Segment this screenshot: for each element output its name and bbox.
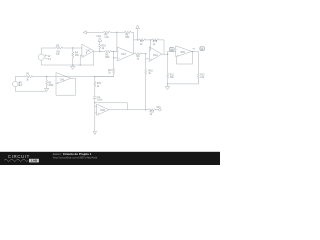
resistor chain down from j9 <box>145 54 149 110</box>
svg-text:http://circuitlab.com/c687y4af: http://circuitlab.com/c687y4afy4afa <box>53 156 98 160</box>
svg-text:LAB: LAB <box>31 159 38 163</box>
wire top chain corner <box>131 32 133 54</box>
resistor R7 <box>139 39 146 42</box>
label opamp C <box>150 50 158 61</box>
label R9 <box>137 56 141 61</box>
label R10 <box>150 107 162 116</box>
label R6 <box>104 35 109 40</box>
svg-text:100n: 100n <box>97 100 103 102</box>
svg-text:-: - <box>150 50 151 53</box>
resistor R3 <box>56 47 63 50</box>
label opamp F <box>98 106 106 115</box>
resistor R2 chain <box>46 77 48 89</box>
wire F down <box>94 103 96 131</box>
wire V2 bottom <box>41 60 93 65</box>
label R11 <box>170 74 175 79</box>
svg-text:CIRCUIT: CIRCUIT <box>8 154 30 159</box>
op-amp OA2 <box>82 45 94 58</box>
wire vo down <box>197 52 199 73</box>
label R16 <box>148 70 153 75</box>
svg-text:-: - <box>118 50 119 53</box>
svg-text:VF1: VF1 <box>156 107 161 109</box>
voltage source V1 <box>13 81 21 87</box>
label opamp B <box>118 50 126 60</box>
node j11 <box>167 83 168 84</box>
label R17 <box>108 70 113 75</box>
wire B plus stub <box>114 57 118 59</box>
label R12 <box>200 74 205 79</box>
resistor R13 chain <box>94 77 96 97</box>
node j16 <box>145 109 146 110</box>
label R2 <box>48 83 54 88</box>
svg-text:1%: 1% <box>56 54 59 56</box>
node j14 <box>94 76 95 77</box>
net flag Vminus arrow <box>83 31 86 34</box>
svg-text:100k: 100k <box>48 85 54 87</box>
wire E feedback <box>56 78 76 95</box>
wire A feedback <box>93 52 95 65</box>
svg-text:OA4: OA4 <box>153 54 158 57</box>
wire drop to opamp B input <box>116 32 118 51</box>
node j7b <box>150 39 151 40</box>
wire V1 bottom <box>15 87 46 91</box>
label opamp A <box>83 47 91 58</box>
logo wave <box>4 159 28 161</box>
node j13 <box>46 76 47 77</box>
wire to opamp C <box>141 53 145 55</box>
wire C output to D <box>162 52 176 55</box>
op-amp OA1 <box>56 73 71 84</box>
wire V2 top <box>41 48 56 54</box>
resistor R1 <box>26 75 33 78</box>
resistor R11 chain <box>167 52 169 84</box>
net flag down arrow <box>93 131 96 134</box>
label V1 <box>19 83 23 88</box>
label opamp D <box>177 48 196 57</box>
footer bar <box>0 152 220 165</box>
ground G1 <box>71 64 75 69</box>
resistor R8 <box>124 31 131 34</box>
svg-text:OA5: OA5 <box>180 51 185 54</box>
ground G2 <box>45 88 49 91</box>
node j8 <box>113 57 114 58</box>
wire F feedback <box>95 103 146 110</box>
node j10 <box>167 54 168 55</box>
capacitor C1 <box>93 97 96 103</box>
op-amp OA4 <box>97 104 109 115</box>
resistor R5 <box>105 50 112 53</box>
resistor R10 <box>149 109 156 112</box>
label R5 <box>105 54 110 59</box>
voltage source V2 <box>38 54 46 60</box>
op-amp OA3c <box>149 47 161 61</box>
net flag VCC1 <box>98 38 101 42</box>
label R7 <box>140 41 144 46</box>
wire D bottom rail <box>168 80 199 84</box>
wire to terminal <box>156 109 159 111</box>
svg-text:-: - <box>98 106 99 109</box>
svg-text:-: - <box>83 47 84 50</box>
resistor R9 <box>134 53 141 56</box>
wire A output <box>94 51 117 53</box>
wire D output <box>191 51 198 53</box>
net flag VCC2 <box>136 25 139 40</box>
node j2 <box>80 64 81 65</box>
node j4 <box>113 51 114 52</box>
wire top chain left <box>87 31 104 33</box>
wire C feedback left vertical <box>149 40 151 51</box>
resistor R4 vertical <box>72 48 74 65</box>
node j9 <box>145 53 146 54</box>
op-amp OA3 <box>176 46 192 57</box>
label opamp E <box>57 75 65 84</box>
svg-text:5 V: 5 V <box>48 59 52 61</box>
label R3 <box>56 45 61 56</box>
resistor R12 chain <box>197 73 199 84</box>
node j1 <box>72 47 73 48</box>
resistor R chain x113 <box>95 52 115 77</box>
wire top chain mid <box>110 31 124 33</box>
ground G3 <box>166 84 170 89</box>
node j15 <box>94 102 95 103</box>
flag box vo <box>200 47 205 51</box>
svg-text:5 V: 5 V <box>19 85 23 87</box>
wire D feedback <box>177 52 193 64</box>
wire C plus stub <box>146 58 150 60</box>
resistor R15b <box>152 39 159 42</box>
label C1 <box>97 97 103 102</box>
svg-text:-: - <box>57 75 58 78</box>
wire V1 long <box>33 76 114 78</box>
wire top net <box>134 40 164 54</box>
resistor R6 <box>103 31 110 34</box>
label R1 <box>26 73 30 81</box>
resistor pullup chain <box>99 41 101 52</box>
svg-text:OA2: OA2 <box>86 50 91 53</box>
wire F input stubs <box>95 106 97 113</box>
node j12 <box>192 51 193 52</box>
node j3 <box>99 51 100 52</box>
label R8 <box>125 35 130 40</box>
label V2 <box>48 56 52 61</box>
wire R3 to opamp <box>63 47 82 49</box>
node j5 <box>116 32 117 33</box>
svg-text:VCC: VCC <box>96 36 101 38</box>
svg-text:OA1: OA1 <box>60 79 65 82</box>
terminal circle <box>159 109 162 112</box>
label R13 <box>97 83 102 88</box>
wire opamp A plus input <box>80 55 82 65</box>
label R14 <box>102 46 107 51</box>
svg-text:-: - <box>177 48 178 51</box>
node j6 <box>137 39 138 40</box>
flag box va <box>170 47 175 51</box>
label R15 <box>153 41 158 46</box>
wire V1 top <box>15 77 26 82</box>
svg-text:OA6: OA6 <box>100 109 105 112</box>
op-amp OA2b <box>117 47 134 61</box>
label R4 <box>75 53 80 58</box>
svg-text:OA3: OA3 <box>121 53 126 56</box>
logo LAB box <box>29 159 39 163</box>
